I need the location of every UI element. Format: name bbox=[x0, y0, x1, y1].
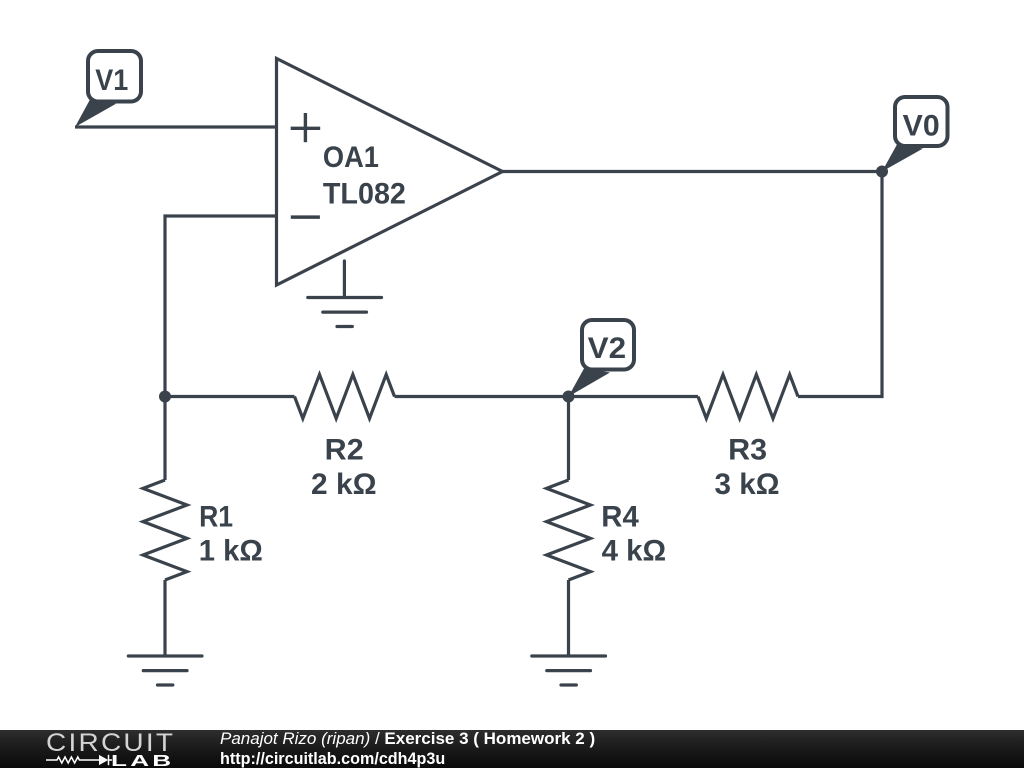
label R2 value 2 kOhm bbox=[311, 468, 377, 501]
svg-text:TL082: TL082 bbox=[323, 178, 406, 211]
node A junction dot bbox=[159, 391, 171, 403]
label R4 value 4 kOhm bbox=[602, 534, 667, 567]
label R4 name bbox=[601, 500, 639, 533]
svg-text:V2: V2 bbox=[588, 332, 627, 365]
svg-text:4 kΩ: 4 kΩ bbox=[602, 534, 667, 567]
node V0 junction dot bbox=[876, 166, 888, 178]
svg-text:1 kΩ: 1 kΩ bbox=[199, 534, 263, 567]
wire R2 to node V2 bbox=[395, 395, 569, 398]
footer title line bbox=[220, 730, 595, 747]
CircuitLab logo mini schematic bbox=[0, 730, 200, 768]
label TL082 bbox=[323, 178, 406, 211]
resistor R1 bbox=[143, 480, 187, 580]
svg-text:R4: R4 bbox=[601, 500, 639, 533]
wire node A to R2 left lead bbox=[165, 395, 295, 398]
label R3 name bbox=[728, 434, 767, 467]
ground below R4 bbox=[532, 656, 606, 685]
resistor R3 bbox=[698, 375, 798, 419]
wire R4 to ground bbox=[567, 580, 570, 656]
net flag V2 bbox=[569, 320, 635, 397]
wire node V2 down to R4 bbox=[567, 397, 570, 481]
svg-text:V0: V0 bbox=[903, 109, 940, 142]
CircuitLab logo LAB bbox=[111, 754, 174, 768]
svg-text:R1: R1 bbox=[199, 500, 233, 533]
svg-text:2 kΩ: 2 kΩ bbox=[311, 468, 377, 501]
svg-text:R2: R2 bbox=[325, 434, 364, 467]
net flag V0 bbox=[882, 97, 948, 172]
label R2 name bbox=[325, 434, 364, 467]
label R1 name bbox=[199, 500, 233, 533]
ground below R1 bbox=[128, 656, 202, 685]
label OA1 bbox=[323, 141, 379, 174]
ground below op-amp bbox=[308, 298, 382, 327]
svg-text:R3: R3 bbox=[728, 434, 767, 467]
op-amp ground stem bbox=[343, 261, 346, 298]
op-amp U1 triangle bbox=[277, 59, 503, 286]
op-amp plus input pin bbox=[291, 113, 321, 142]
svg-text:OA1: OA1 bbox=[323, 141, 379, 174]
wire op-amp output to V0 corner bbox=[503, 170, 883, 173]
wire R1 to ground bbox=[163, 580, 166, 656]
svg-text:3 kΩ: 3 kΩ bbox=[715, 468, 780, 501]
CircuitLab logo CIRCUIT bbox=[46, 731, 175, 756]
wire node V2 to R3 left lead bbox=[569, 395, 699, 398]
node V2 junction dot bbox=[563, 391, 575, 403]
wire node A down to R1 bbox=[163, 397, 166, 481]
net flag V1 bbox=[75, 51, 141, 127]
footer bar bbox=[0, 730, 1024, 768]
wire V1 to op-amp non-inverting input bbox=[75, 125, 277, 128]
resistor R4 bbox=[547, 480, 591, 580]
footer url line bbox=[220, 750, 445, 767]
wire op-amp inverting input to node A bbox=[165, 216, 277, 397]
op-amp minus input pin bbox=[291, 215, 320, 219]
wire V0 corner down to R3 bbox=[798, 172, 882, 397]
label R1 value 1 kOhm bbox=[199, 534, 263, 567]
resistor R2 bbox=[295, 375, 395, 419]
label R3 value 3 kOhm bbox=[715, 468, 780, 501]
svg-text:V1: V1 bbox=[95, 64, 128, 97]
